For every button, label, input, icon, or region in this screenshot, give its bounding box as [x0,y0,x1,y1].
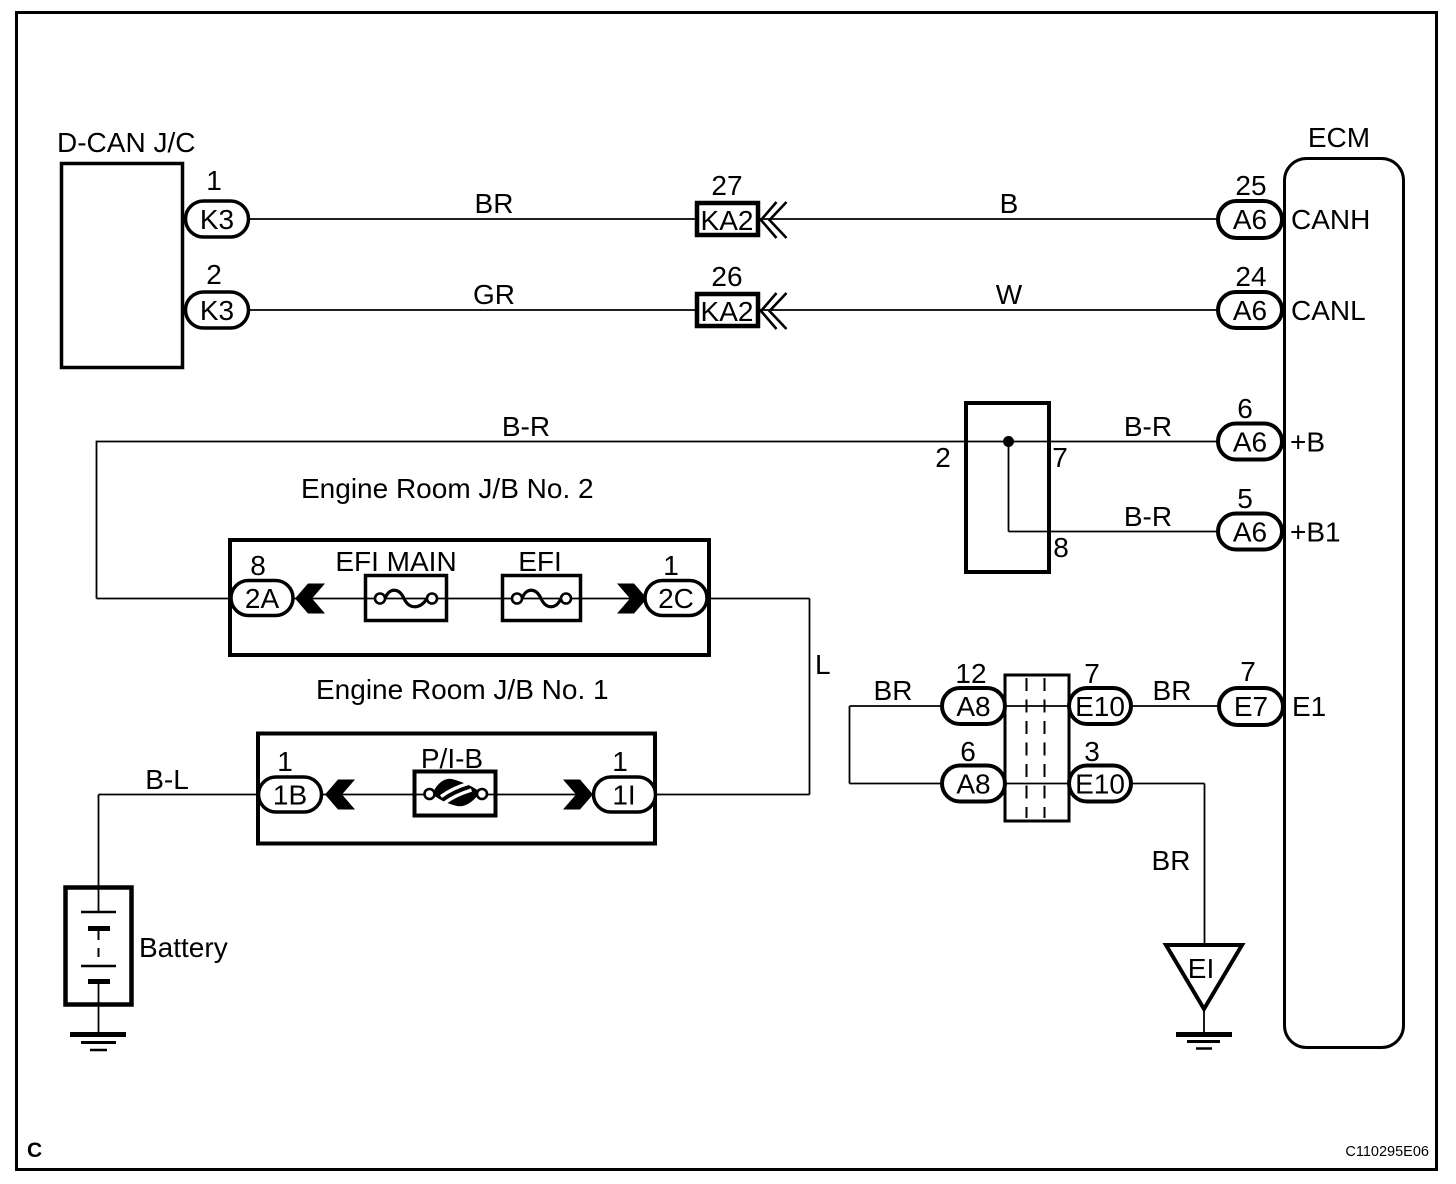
Engine Room J/B No. 2 box [230,540,709,655]
connector 1B [259,777,322,812]
svg-text:3: 3 [1084,736,1100,767]
svg-text:E10: E10 [1075,691,1125,722]
shield chevrons row2 [761,293,787,329]
fuse EFI box [503,576,581,621]
connector A6 pin6 [1218,424,1282,460]
svg-text:1: 1 [206,165,222,196]
svg-text:P/I-B: P/I-B [421,743,483,774]
fuse EFI element [512,594,522,604]
battery internal top lead [98,888,100,912]
svg-text:2C: 2C [658,583,694,614]
svg-text:6: 6 [960,736,976,767]
svg-text:B-R: B-R [502,411,550,442]
svg-text:B: B [1000,188,1019,219]
svg-text:A8: A8 [956,769,990,800]
svg-text:K3: K3 [200,204,234,235]
svg-text:A6: A6 [1233,204,1267,235]
svg-text:5: 5 [1237,483,1253,514]
svg-text:1: 1 [663,550,679,581]
connector A8 pin12 [942,688,1005,724]
wire J/B2 row [97,598,810,600]
svg-text:GR: GR [473,279,515,310]
junction connector box [966,403,1049,572]
svg-text:+B1: +B1 [1290,517,1341,548]
wire BR row E1 [850,705,1219,707]
svg-text:CANL: CANL [1291,295,1366,326]
connector 2A [231,581,293,616]
intermediate connector dashed lines [1026,678,1028,818]
svg-text:2: 2 [206,259,222,290]
svg-text:EFI MAIN: EFI MAIN [335,546,456,577]
battery plate long 2 [81,965,116,968]
svg-text:Engine Room J/B No. 1: Engine Room J/B No. 1 [316,674,609,705]
svg-text:C: C [27,1139,42,1162]
svg-text:B-L: B-L [145,764,189,795]
svg-text:12: 12 [955,658,986,689]
junction dot [1003,436,1014,447]
wire BR left vertical [849,706,851,784]
arrow into 2C [617,584,647,614]
svg-text:EI: EI [1188,953,1214,984]
svg-text:CANH: CANH [1291,204,1370,235]
connector A6 pin24 [1218,292,1282,328]
svg-text:2: 2 [935,442,951,473]
ECM body [1285,159,1404,1048]
Engine Room J/B No. 1 box [258,734,655,844]
connector 2C [645,581,707,616]
intermediate connector box [1005,675,1069,821]
svg-text:E10: E10 [1075,769,1125,800]
fuse EFI MAIN element [375,594,385,604]
battery plate long 1 [81,911,116,914]
svg-text:L: L [815,649,831,680]
wire GR row2 [249,309,1218,311]
arrow into 1B [325,780,355,810]
wire B-R horizontal [97,441,1219,443]
connector E10 pin3 [1069,766,1131,802]
svg-text:7: 7 [1240,656,1256,687]
D-CAN J/C box [62,164,183,368]
arrow into 1I [563,780,593,810]
svg-text:A6: A6 [1233,295,1267,326]
fuse EFI MAIN box [366,576,447,621]
svg-text:Battery: Battery [139,932,228,963]
connector A8 pin6 [942,766,1005,802]
ground EI [1176,1032,1232,1037]
connector K3 pin1 [186,201,249,237]
svg-text:27: 27 [711,170,742,201]
ground battery [70,1032,126,1037]
svg-text:24: 24 [1235,261,1266,292]
svg-text:6: 6 [1237,393,1253,424]
svg-text:EFI: EFI [518,546,562,577]
svg-text:BR: BR [1153,675,1192,706]
svg-text:B-R: B-R [1124,411,1172,442]
connector E10 pin7 [1069,688,1131,724]
connector A6 pin25 [1218,201,1282,238]
svg-text:7: 7 [1052,442,1068,473]
connector K3 pin2 [186,292,249,328]
svg-text:D-CAN J/C: D-CAN J/C [57,127,195,158]
fusible link P/I-B box [415,772,496,816]
svg-text:E7: E7 [1234,691,1268,722]
svg-text:+B: +B [1290,427,1325,458]
battery bottom lead [98,982,100,1035]
svg-text:KA2: KA2 [701,296,754,327]
battery box [66,888,132,1005]
svg-text:C110295E06: C110295E06 [1345,1144,1429,1160]
wire BR vertical to EI [1204,784,1206,946]
svg-text:A8: A8 [956,691,990,722]
svg-text:KA2: KA2 [701,205,754,236]
wire junction to +B1 [1009,531,1219,533]
svg-text:A6: A6 [1233,517,1267,548]
svg-text:E1: E1 [1292,691,1326,722]
svg-text:1: 1 [277,746,293,777]
connector A6 pin5 [1218,514,1282,550]
svg-text:7: 7 [1084,658,1100,689]
connector KA2 row1 [697,203,758,235]
svg-text:26: 26 [711,261,742,292]
battery plate short 2 [88,979,110,984]
connector 1I [594,777,656,812]
svg-text:ECM: ECM [1308,122,1370,153]
connector E7 [1219,688,1283,725]
svg-text:8: 8 [1053,532,1069,563]
wire B-L vertical to battery [98,795,100,889]
wire J/B1 row [99,794,810,796]
battery plate short 1 [88,926,110,931]
wire BR row2 [850,783,1205,785]
connector KA2 row2 [697,294,758,326]
shield chevrons row1 [761,202,787,238]
svg-text:2A: 2A [245,583,280,614]
svg-text:BR: BR [475,188,514,219]
battery dashed link [98,931,100,964]
arrow into 2A [295,584,325,614]
wire junction vertical [1008,442,1010,532]
svg-text:A6: A6 [1233,427,1267,458]
svg-text:W: W [996,279,1023,310]
wire B-R left vertical [96,441,98,599]
svg-text:BR: BR [1152,845,1191,876]
svg-text:B-R: B-R [1124,501,1172,532]
wire L vertical [809,599,811,795]
fusible link P/I-B element [425,789,435,799]
svg-text:8: 8 [250,550,266,581]
svg-text:K3: K3 [200,295,234,326]
wire BR row1 [249,218,1218,220]
EI lead [1203,1009,1205,1034]
svg-text:BR: BR [874,675,913,706]
svg-text:1: 1 [612,746,628,777]
svg-text:Engine Room J/B No. 2: Engine Room J/B No. 2 [301,473,594,504]
svg-text:1B: 1B [273,780,307,811]
svg-text:1I: 1I [612,780,635,811]
svg-text:25: 25 [1235,170,1266,201]
ground triangle EI [1166,945,1242,1009]
